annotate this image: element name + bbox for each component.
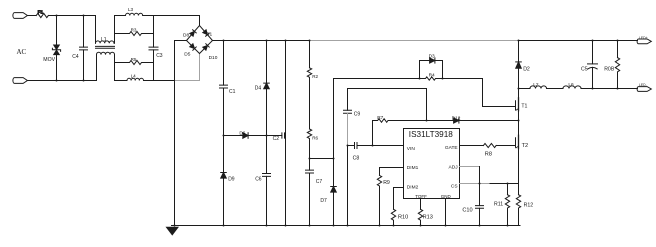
wire L2 to L6	[547, 88, 564, 90]
svg-text:MOV: MOV	[43, 57, 55, 63]
svg-text:T2: T2	[522, 143, 529, 149]
wire choke left top vertical	[95, 16, 97, 44]
svg-text:L6: L6	[568, 82, 574, 88]
wire top rail L3 to bridge	[143, 15, 200, 17]
svg-text:R10: R10	[398, 215, 408, 221]
junction D2 bus	[518, 40, 520, 42]
junction ground C10	[479, 225, 481, 227]
resistor R4	[420, 73, 483, 81]
wire top rail terminal to fuse	[27, 15, 36, 17]
wire bottom rail choke to L4	[115, 80, 128, 82]
svg-text:DIM1: DIM1	[407, 165, 419, 171]
capacitor C4	[72, 16, 87, 81]
inductor L6	[563, 82, 581, 88]
diode D6	[224, 130, 282, 138]
wire DC plus bus black segment	[213, 40, 310, 42]
resistor R12	[516, 195, 533, 226]
junction R0B top	[617, 40, 619, 42]
bridge diode D10 (bottom-right)	[203, 44, 210, 51]
junction D6 line right	[266, 135, 268, 137]
bridge rectifier diamond	[187, 26, 213, 54]
wire CS pin gray segment	[460, 183, 491, 185]
wire C9 top horizontal	[348, 88, 427, 90]
wire bridge bottom corner vertical (gray)	[199, 54, 201, 81]
diode D2	[516, 41, 530, 98]
junction R0B bottom	[617, 88, 619, 90]
junction C8 left node	[347, 145, 349, 147]
svg-text:R9: R9	[383, 180, 390, 186]
wire VIN node to R7 line	[372, 121, 374, 146]
svg-text:D1: D1	[206, 32, 212, 38]
resistor R10	[391, 188, 408, 226]
resistor R9	[377, 168, 390, 226]
junction ground C2	[285, 225, 287, 227]
junction CS R11	[507, 183, 509, 185]
svg-text:ADJ: ADJ	[449, 164, 459, 170]
junction bus C2	[285, 40, 287, 42]
svg-text:F1: F1	[38, 9, 44, 15]
junction ground C6	[266, 225, 268, 227]
wire bridge top corner vertical	[199, 16, 201, 26]
svg-text:L1: L1	[101, 37, 107, 43]
svg-text:R5: R5	[131, 57, 137, 62]
junction CS C10	[479, 183, 481, 185]
svg-text:C3: C3	[156, 53, 163, 59]
terminal LED plus	[637, 36, 651, 44]
svg-text:R8: R8	[485, 151, 492, 157]
svg-text:R3: R3	[131, 27, 137, 32]
transistor T2	[516, 135, 529, 195]
junction T1 source line	[518, 120, 520, 122]
svg-text:C7: C7	[316, 179, 323, 185]
wire L3 box right vertical	[153, 16, 155, 48]
svg-text:C5: C5	[581, 66, 588, 72]
ground symbol	[167, 227, 179, 235]
wire gate drive horizontal	[334, 78, 420, 80]
svg-text:R13: R13	[423, 215, 433, 221]
svg-text:C2: C2	[273, 136, 280, 142]
junction D3 R4 right	[442, 78, 444, 80]
junction D3 R4 left	[419, 78, 421, 80]
svg-text:D12: D12	[452, 116, 461, 122]
wire C9 branch vertical	[426, 89, 428, 121]
junction top rail C4	[83, 15, 85, 17]
fuse F1	[36, 9, 48, 17]
wire ADJ down to CS node	[479, 167, 481, 184]
junction D7 node	[333, 158, 335, 160]
svg-text:D5: D5	[184, 51, 190, 57]
wire D7 column vertical	[333, 79, 335, 187]
svg-text:R6: R6	[312, 135, 318, 140]
capacitor C6	[255, 174, 270, 226]
resistor R13	[418, 199, 433, 226]
svg-text:C4: C4	[72, 54, 79, 60]
svg-text:R12: R12	[524, 203, 534, 209]
wire DIM2 pin	[394, 187, 404, 189]
wire ADJ pin (gray)	[460, 166, 480, 168]
svg-text:D9: D9	[228, 176, 235, 182]
inductor L2	[530, 82, 547, 88]
bridge diode D1 (top-right)	[203, 30, 210, 37]
resistor R8	[483, 143, 515, 157]
svg-text:C9: C9	[354, 112, 361, 118]
svg-text:D8: D8	[183, 32, 189, 38]
wire top branch to L3	[115, 15, 126, 17]
svg-text:VIN: VIN	[407, 146, 416, 152]
junction VIN node	[372, 145, 374, 147]
svg-text:CS: CS	[451, 184, 458, 190]
svg-text:D3: D3	[429, 53, 435, 59]
resistor R0B	[604, 41, 620, 89]
junction bus D4	[266, 40, 268, 42]
wire GND pin vertical	[445, 199, 447, 226]
resistor R7	[373, 115, 454, 122]
capacitor C5	[581, 41, 598, 89]
wire bottom rail to bridge (gray)	[175, 80, 200, 82]
junction C5 bottom	[592, 88, 594, 90]
wire C8 node to ground	[347, 146, 349, 226]
junction ground DC minus	[174, 225, 176, 227]
resistor R2	[307, 41, 318, 130]
junction C5 top	[592, 40, 594, 42]
svg-text:D6: D6	[239, 130, 245, 135]
wire DC minus vertical to ground bus	[174, 41, 176, 226]
wire choke right top vertical	[114, 16, 116, 44]
junction R7 line C9 branch	[426, 120, 428, 122]
wire gate drive to T1	[483, 79, 516, 107]
wire GATE pin	[460, 145, 484, 147]
capacitor C10	[462, 184, 483, 226]
diode D9	[221, 173, 235, 226]
capacitor C7	[306, 170, 323, 225]
MOV varistor	[43, 16, 60, 81]
junction ground R10	[393, 225, 395, 227]
resistor R3	[115, 27, 154, 35]
wire bridge left corner to DC minus	[175, 40, 187, 42]
ground bus	[172, 225, 521, 227]
junction ground R11	[507, 225, 509, 227]
junction ground R13	[420, 225, 422, 227]
svg-text:AC: AC	[17, 48, 27, 56]
wire node R6 to D7	[310, 158, 334, 160]
capacitor C2	[273, 133, 286, 142]
junction bottom rail MOV	[56, 80, 58, 82]
svg-text:D2: D2	[523, 66, 530, 72]
bridge diode D5 (bottom-left)	[190, 44, 197, 51]
svg-text:LED-: LED-	[639, 83, 647, 87]
junction R6 C7 node	[309, 158, 311, 160]
svg-text:C6: C6	[255, 176, 262, 182]
capacitor C8	[348, 143, 404, 162]
svg-text:C1: C1	[229, 89, 236, 95]
svg-text:TOFF: TOFF	[415, 194, 427, 199]
resistor R11	[494, 184, 510, 226]
diode D7	[320, 187, 336, 226]
junction ground C7	[309, 225, 311, 227]
svg-text:D4: D4	[255, 86, 262, 92]
wire DIM1 pin	[380, 167, 404, 169]
svg-text:GATE: GATE	[445, 145, 458, 151]
svg-text:IS31LT3918: IS31LT3918	[409, 130, 453, 139]
wire DC plus bus gray segment	[310, 40, 519, 42]
junction bottom rail C4	[83, 80, 85, 82]
junction ground R9	[379, 225, 381, 227]
capacitor C1	[220, 41, 236, 173]
svg-text:LED+: LED+	[639, 36, 648, 40]
junction bus C1	[223, 40, 225, 42]
svg-text:R7: R7	[377, 115, 383, 121]
wire L2 line from switch node	[519, 88, 531, 90]
wire CS line black segment	[490, 183, 519, 185]
svg-text:DIM2: DIM2	[407, 185, 419, 191]
junction ground C1	[223, 225, 225, 227]
bridge diode D8 (top-left)	[190, 30, 197, 37]
wire L6 to LED minus terminal	[581, 88, 638, 90]
svg-text:L4: L4	[131, 73, 137, 78]
wire top rail fuse to choke	[48, 15, 95, 17]
diode D3 parallel branch	[420, 53, 443, 78]
inductor L3	[126, 7, 143, 16]
diode D12	[452, 116, 519, 124]
terminal AC line (top)	[13, 13, 28, 19]
svg-text:R11: R11	[494, 201, 503, 207]
junction ground GND pin	[445, 225, 447, 227]
svg-text:T1: T1	[521, 103, 527, 109]
svg-text:L2: L2	[533, 82, 539, 88]
svg-text:C8: C8	[353, 156, 360, 162]
resistor R6	[307, 129, 318, 170]
wire L3 box left vertical	[114, 16, 116, 34]
junction ground D7	[333, 225, 335, 227]
common-mode choke L1	[96, 37, 115, 54]
wire C2 column vertical	[285, 41, 287, 226]
resistor R5	[115, 57, 154, 65]
svg-text:R2: R2	[312, 74, 318, 79]
junction ground C8	[347, 225, 349, 227]
inductor L4	[127, 73, 143, 80]
IC U1 IS31LT3918	[404, 129, 460, 199]
diode D4	[255, 41, 270, 174]
svg-text:GND: GND	[441, 194, 452, 199]
wire bottom rail L4 to crossing	[144, 80, 175, 82]
junction top rail MOV	[56, 15, 58, 17]
junction D6 line left	[223, 135, 225, 137]
wire choke left bottom vertical	[96, 55, 98, 81]
svg-text:R0B: R0B	[604, 66, 615, 72]
svg-text:R4: R4	[429, 73, 435, 79]
terminal LED minus	[637, 83, 651, 92]
svg-text:D10: D10	[209, 55, 218, 61]
terminal AC line (bottom)	[13, 78, 28, 84]
svg-text:L3: L3	[128, 7, 134, 12]
transistor T1	[516, 98, 528, 135]
wire DC plus bus right segment	[519, 40, 638, 42]
svg-text:D7: D7	[320, 198, 327, 204]
svg-text:C10: C10	[462, 208, 472, 214]
capacitor C3	[149, 47, 163, 80]
junction L2 branch	[518, 88, 520, 90]
junction bus R2	[309, 40, 311, 42]
wire bottom rail terminal to choke	[27, 80, 96, 82]
capacitor C9	[344, 89, 361, 146]
wire choke right bottom vertical	[114, 55, 116, 81]
